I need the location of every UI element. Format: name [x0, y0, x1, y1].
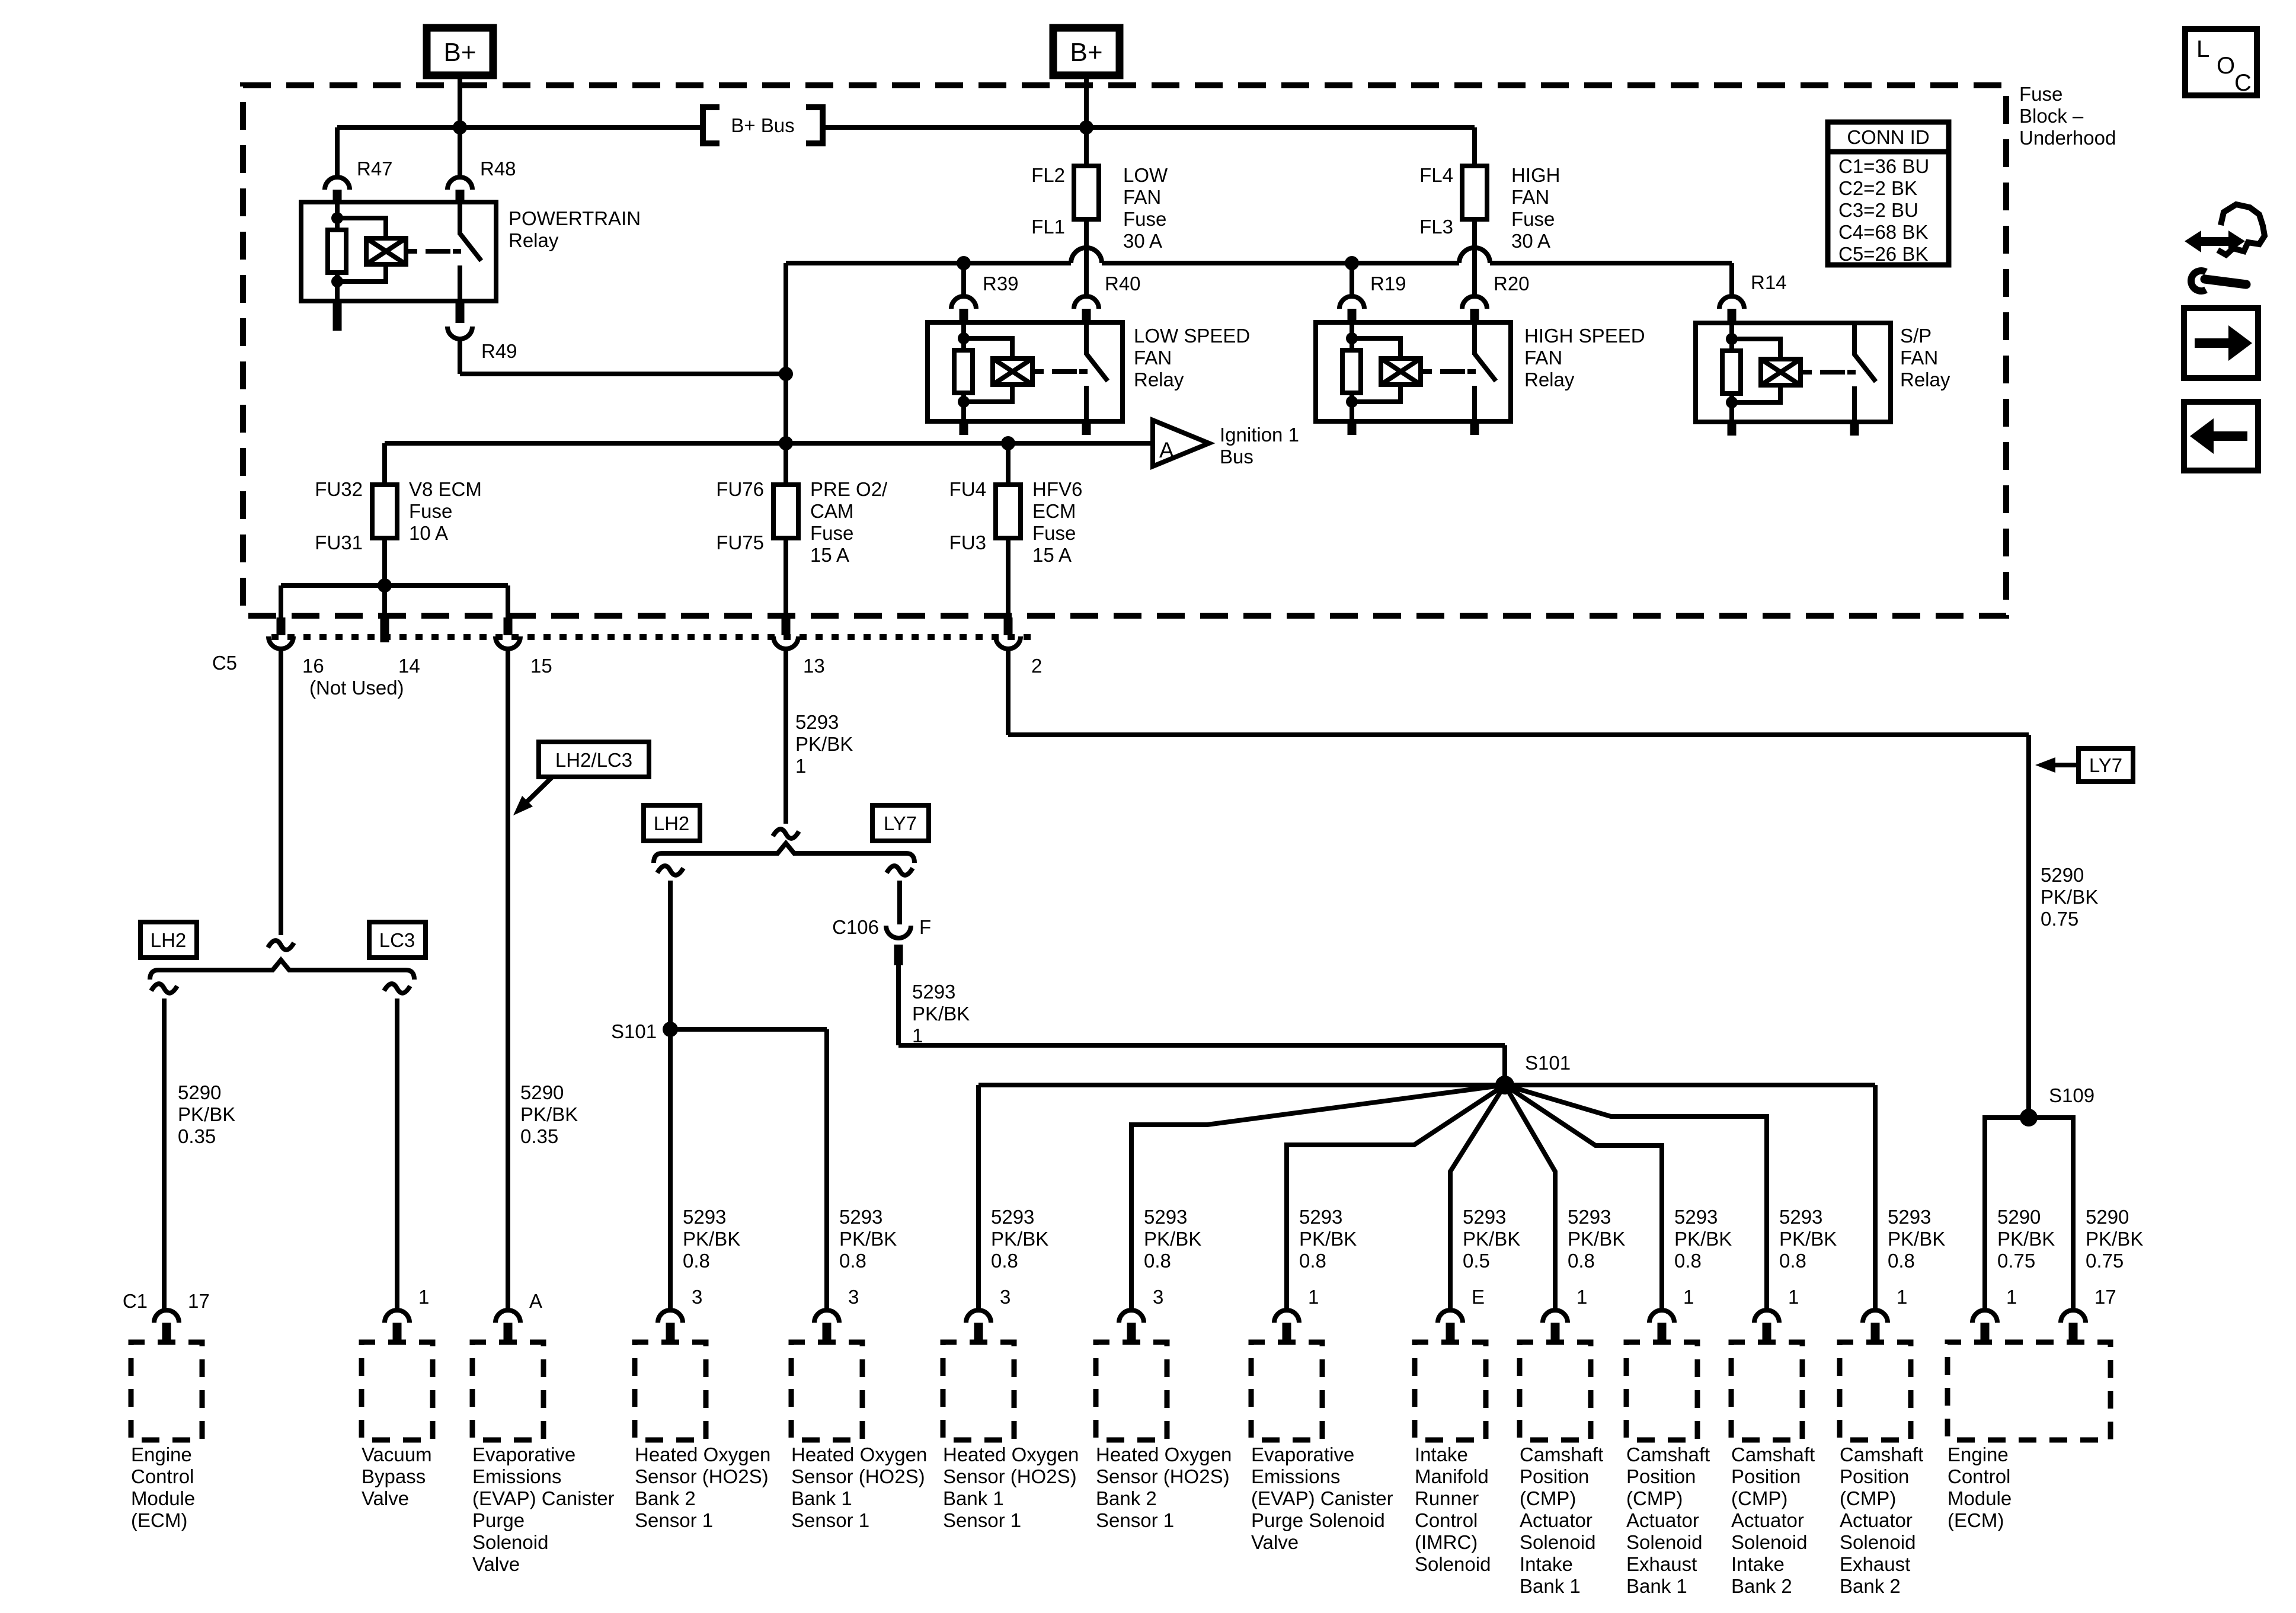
svg-text:15: 15 [530, 655, 552, 677]
svg-text:Intake: Intake [1520, 1553, 1573, 1575]
svg-text:Bypass: Bypass [362, 1465, 426, 1487]
svg-text:5293: 5293 [1568, 1206, 1611, 1228]
svg-text:Bank 1: Bank 1 [1520, 1575, 1581, 1597]
svg-text:1: 1 [1788, 1286, 1799, 1308]
svg-text:1: 1 [1576, 1286, 1587, 1308]
svg-text:PK/BK: PK/BK [2086, 1228, 2143, 1250]
svg-text:Relay: Relay [1524, 369, 1575, 391]
svg-text:PK/BK: PK/BK [1299, 1228, 1357, 1250]
svg-text:Bus: Bus [1220, 446, 1253, 468]
svg-text:HIGH SPEED: HIGH SPEED [1524, 325, 1645, 347]
svg-text:5290: 5290 [2086, 1206, 2129, 1228]
svg-text:C5: C5 [212, 652, 237, 674]
svg-text:1: 1 [1308, 1286, 1319, 1308]
svg-text:LC3: LC3 [379, 929, 415, 951]
svg-text:Camshaft: Camshaft [1731, 1444, 1815, 1465]
svg-text:5293: 5293 [1888, 1206, 1931, 1228]
svg-text:Position: Position [1840, 1465, 1909, 1487]
svg-text:5293: 5293 [1463, 1206, 1506, 1228]
svg-text:PK/BK: PK/BK [1997, 1228, 2055, 1250]
svg-text:S109: S109 [2049, 1084, 2094, 1106]
svg-text:PK/BK: PK/BK [2041, 886, 2098, 908]
svg-text:5293: 5293 [1779, 1206, 1822, 1228]
svg-text:POWERTRAIN: POWERTRAIN [509, 207, 641, 229]
svg-text:(ECM): (ECM) [1948, 1509, 2004, 1531]
svg-text:10 A: 10 A [409, 522, 448, 544]
svg-text:HIGH: HIGH [1511, 164, 1560, 186]
svg-text:Valve: Valve [472, 1553, 520, 1575]
svg-text:0.35: 0.35 [178, 1125, 216, 1147]
svg-text:FU4: FU4 [949, 478, 986, 500]
svg-text:PK/BK: PK/BK [1888, 1228, 1945, 1250]
svg-text:Sensor 1: Sensor 1 [791, 1509, 869, 1531]
svg-text:S/P: S/P [1900, 325, 1932, 347]
svg-text:Solenoid: Solenoid [1626, 1531, 1702, 1553]
svg-text:Sensor (HO2S): Sensor (HO2S) [1096, 1465, 1230, 1487]
svg-text:B+: B+ [443, 38, 476, 67]
svg-text:5290: 5290 [1997, 1206, 2041, 1228]
svg-text:5293: 5293 [912, 981, 955, 1003]
svg-text:Sensor (HO2S): Sensor (HO2S) [943, 1465, 1077, 1487]
svg-text:L: L [2196, 36, 2209, 62]
svg-text:Sensor (HO2S): Sensor (HO2S) [635, 1465, 769, 1487]
svg-text:Heated Oxygen: Heated Oxygen [1096, 1444, 1232, 1465]
svg-text:Relay: Relay [1134, 369, 1184, 391]
svg-text:Camshaft: Camshaft [1840, 1444, 1923, 1465]
svg-text:Module: Module [1948, 1487, 2012, 1509]
svg-text:Control: Control [1415, 1509, 1478, 1531]
svg-text:5293: 5293 [683, 1206, 726, 1228]
svg-text:Position: Position [1626, 1465, 1696, 1487]
svg-text:PK/BK: PK/BK [1779, 1228, 1837, 1250]
svg-text:PK/BK: PK/BK [795, 733, 853, 755]
svg-text:CONN ID: CONN ID [1847, 126, 1929, 148]
svg-text:Fuse: Fuse [1032, 522, 1076, 544]
svg-text:Bank 2: Bank 2 [1096, 1487, 1157, 1509]
svg-text:FL2: FL2 [1031, 164, 1065, 186]
svg-text:Camshaft: Camshaft [1520, 1444, 1603, 1465]
svg-text:0.8: 0.8 [1144, 1250, 1171, 1272]
svg-text:30 A: 30 A [1123, 230, 1162, 252]
svg-text:Actuator: Actuator [1626, 1509, 1699, 1531]
svg-text:PK/BK: PK/BK [1463, 1228, 1520, 1250]
svg-text:Control: Control [1948, 1465, 2010, 1487]
svg-text:PK/BK: PK/BK [683, 1228, 740, 1250]
svg-text:Underhood: Underhood [2019, 127, 2116, 149]
svg-text:Solenoid: Solenoid [472, 1531, 548, 1553]
svg-text:PK/BK: PK/BK [1144, 1228, 1201, 1250]
svg-text:Purge: Purge [472, 1509, 525, 1531]
svg-text:F: F [919, 916, 931, 938]
svg-text:5290: 5290 [178, 1081, 221, 1103]
svg-text:(EVAP) Canister: (EVAP) Canister [1251, 1487, 1393, 1509]
svg-text:0.8: 0.8 [839, 1250, 866, 1272]
svg-text:C5=26 BK: C5=26 BK [1838, 243, 1928, 265]
svg-text:Sensor 1: Sensor 1 [943, 1509, 1021, 1531]
svg-text:Block –: Block – [2019, 105, 2084, 127]
svg-text:Module: Module [131, 1487, 195, 1509]
svg-text:Sensor 1: Sensor 1 [1096, 1509, 1174, 1531]
svg-text:S101: S101 [611, 1020, 657, 1042]
svg-text:(ECM): (ECM) [131, 1509, 187, 1531]
svg-text:Fuse: Fuse [810, 522, 853, 544]
svg-text:Exhaust: Exhaust [1840, 1553, 1910, 1575]
svg-text:Sensor (HO2S): Sensor (HO2S) [791, 1465, 925, 1487]
svg-text:B+: B+ [1070, 38, 1102, 67]
svg-text:Evaporative: Evaporative [1251, 1444, 1354, 1465]
svg-text:C4=68 BK: C4=68 BK [1838, 221, 1928, 243]
svg-text:5293: 5293 [991, 1206, 1034, 1228]
svg-text:LH2: LH2 [151, 929, 187, 951]
svg-text:17: 17 [2094, 1286, 2116, 1308]
svg-text:FU76: FU76 [716, 478, 764, 500]
svg-text:2: 2 [1031, 655, 1042, 677]
svg-text:5293: 5293 [1144, 1206, 1187, 1228]
svg-text:Engine: Engine [1948, 1444, 2009, 1465]
svg-text:1: 1 [418, 1286, 429, 1308]
svg-text:Exhaust: Exhaust [1626, 1553, 1697, 1575]
svg-text:A: A [1159, 438, 1174, 462]
svg-text:0.8: 0.8 [1779, 1250, 1806, 1272]
svg-text:0.35: 0.35 [520, 1125, 558, 1147]
svg-text:Actuator: Actuator [1520, 1509, 1593, 1531]
svg-text:FAN: FAN [1123, 186, 1161, 208]
svg-text:HFV6: HFV6 [1032, 478, 1082, 500]
svg-text:5293: 5293 [839, 1206, 882, 1228]
svg-text:R20: R20 [1494, 273, 1530, 295]
svg-text:1: 1 [1683, 1286, 1694, 1308]
svg-text:ECM: ECM [1032, 500, 1076, 522]
svg-text:(IMRC): (IMRC) [1415, 1531, 1478, 1553]
svg-text:0.5: 0.5 [1463, 1250, 1490, 1272]
svg-text:Bank 1: Bank 1 [791, 1487, 852, 1509]
svg-text:17: 17 [188, 1290, 210, 1312]
svg-text:R40: R40 [1105, 273, 1141, 295]
svg-text:LH2: LH2 [654, 812, 690, 834]
svg-text:(Not Used): (Not Used) [309, 677, 404, 699]
svg-text:PK/BK: PK/BK [991, 1228, 1048, 1250]
svg-text:Heated Oxygen: Heated Oxygen [635, 1444, 770, 1465]
svg-text:14: 14 [398, 655, 420, 677]
svg-text:S101: S101 [1525, 1052, 1571, 1074]
svg-text:Engine: Engine [131, 1444, 192, 1465]
svg-text:0.8: 0.8 [991, 1250, 1018, 1272]
svg-text:FL3: FL3 [1419, 216, 1453, 238]
svg-text:Bank 2: Bank 2 [635, 1487, 696, 1509]
svg-text:1: 1 [2006, 1286, 2017, 1308]
svg-text:(CMP): (CMP) [1520, 1487, 1576, 1509]
svg-text:Heated Oxygen: Heated Oxygen [943, 1444, 1079, 1465]
svg-text:13: 13 [803, 655, 825, 677]
svg-text:Position: Position [1731, 1465, 1801, 1487]
svg-text:C2=2 BK: C2=2 BK [1838, 177, 1917, 199]
svg-text:1: 1 [1897, 1286, 1907, 1308]
svg-text:LOW: LOW [1123, 164, 1168, 186]
svg-text:1: 1 [795, 755, 806, 777]
svg-text:E: E [1472, 1286, 1485, 1308]
svg-text:C3=2 BU: C3=2 BU [1838, 199, 1918, 221]
svg-text:Relay: Relay [1900, 369, 1950, 391]
svg-text:O: O [2217, 53, 2235, 79]
svg-text:3: 3 [1153, 1286, 1163, 1308]
svg-text:FAN: FAN [1524, 347, 1562, 369]
svg-text:Bank 2: Bank 2 [1731, 1575, 1792, 1597]
svg-text:Fuse: Fuse [1123, 208, 1166, 230]
svg-text:3: 3 [1000, 1286, 1011, 1308]
svg-text:FL1: FL1 [1031, 216, 1065, 238]
svg-text:Intake: Intake [1415, 1444, 1468, 1465]
svg-text:Vacuum: Vacuum [362, 1444, 432, 1465]
svg-text:C1: C1 [123, 1290, 148, 1312]
svg-text:C106: C106 [832, 916, 879, 938]
svg-text:0.8: 0.8 [1299, 1250, 1326, 1272]
svg-text:CAM: CAM [810, 500, 853, 522]
svg-text:5290: 5290 [2041, 864, 2084, 886]
svg-text:Fuse: Fuse [2019, 83, 2062, 105]
svg-text:Camshaft: Camshaft [1626, 1444, 1710, 1465]
svg-text:FAN: FAN [1134, 347, 1172, 369]
svg-text:R14: R14 [1751, 271, 1787, 293]
svg-text:Manifold: Manifold [1415, 1465, 1489, 1487]
svg-text:C1=36 BU: C1=36 BU [1838, 155, 1929, 177]
svg-text:R39: R39 [983, 273, 1019, 295]
svg-text:3: 3 [848, 1286, 859, 1308]
svg-text:PK/BK: PK/BK [520, 1103, 578, 1125]
svg-text:0.75: 0.75 [1997, 1250, 2035, 1272]
svg-text:FU3: FU3 [949, 532, 986, 553]
svg-text:(CMP): (CMP) [1840, 1487, 1896, 1509]
svg-text:LOW SPEED: LOW SPEED [1134, 325, 1250, 347]
svg-text:Valve: Valve [1251, 1531, 1299, 1553]
svg-text:Sensor 1: Sensor 1 [635, 1509, 713, 1531]
svg-text:15 A: 15 A [1032, 544, 1072, 566]
svg-text:(EVAP) Canister: (EVAP) Canister [472, 1487, 615, 1509]
svg-text:Position: Position [1520, 1465, 1589, 1487]
svg-text:Intake: Intake [1731, 1553, 1785, 1575]
svg-text:LY7: LY7 [2089, 754, 2122, 776]
svg-text:A: A [529, 1290, 542, 1312]
svg-text:0.8: 0.8 [1568, 1250, 1595, 1272]
svg-text:PK/BK: PK/BK [178, 1103, 235, 1125]
svg-text:Fuse: Fuse [409, 500, 452, 522]
svg-text:Relay: Relay [509, 229, 559, 251]
svg-text:5293: 5293 [795, 711, 839, 733]
svg-text:PK/BK: PK/BK [1568, 1228, 1625, 1250]
svg-text:Bank 1: Bank 1 [1626, 1575, 1687, 1597]
svg-text:Fuse: Fuse [1511, 208, 1555, 230]
svg-text:Solenoid: Solenoid [1731, 1531, 1807, 1553]
svg-text:Bank 1: Bank 1 [943, 1487, 1004, 1509]
svg-text:Solenoid: Solenoid [1415, 1553, 1491, 1575]
svg-text:(CMP): (CMP) [1731, 1487, 1787, 1509]
svg-text:V8 ECM: V8 ECM [409, 478, 482, 500]
svg-text:0.75: 0.75 [2041, 908, 2078, 930]
svg-text:R48: R48 [480, 158, 516, 180]
svg-text:FAN: FAN [1511, 186, 1549, 208]
svg-text:Evaporative: Evaporative [472, 1444, 575, 1465]
svg-text:0.8: 0.8 [683, 1250, 710, 1272]
svg-text:R49: R49 [481, 340, 517, 362]
svg-text:3: 3 [692, 1286, 702, 1308]
svg-text:Solenoid: Solenoid [1520, 1531, 1595, 1553]
svg-text:(CMP): (CMP) [1626, 1487, 1683, 1509]
svg-text:FAN: FAN [1900, 347, 1938, 369]
svg-text:Emissions: Emissions [1251, 1465, 1340, 1487]
svg-text:C: C [2234, 70, 2252, 96]
svg-text:R47: R47 [357, 158, 393, 180]
svg-text:Valve: Valve [362, 1487, 409, 1509]
svg-text:Bank 2: Bank 2 [1840, 1575, 1901, 1597]
svg-text:PK/BK: PK/BK [912, 1003, 970, 1025]
svg-text:B+ Bus: B+ Bus [731, 114, 794, 136]
svg-text:PK/BK: PK/BK [839, 1228, 897, 1250]
svg-text:5293: 5293 [1674, 1206, 1718, 1228]
svg-text:FL4: FL4 [1419, 164, 1453, 186]
svg-text:Actuator: Actuator [1731, 1509, 1804, 1531]
svg-text:LH2/LC3: LH2/LC3 [555, 749, 632, 771]
svg-text:PK/BK: PK/BK [1674, 1228, 1732, 1250]
svg-text:15 A: 15 A [810, 544, 849, 566]
svg-text:Ignition 1: Ignition 1 [1220, 424, 1299, 446]
svg-text:0.8: 0.8 [1888, 1250, 1915, 1272]
svg-text:LY7: LY7 [884, 812, 917, 834]
svg-text:30 A: 30 A [1511, 230, 1550, 252]
svg-text:R19: R19 [1370, 273, 1406, 295]
svg-text:0.75: 0.75 [2086, 1250, 2124, 1272]
svg-text:Purge Solenoid: Purge Solenoid [1251, 1509, 1385, 1531]
svg-text:Emissions: Emissions [472, 1465, 561, 1487]
svg-text:Heated Oxygen: Heated Oxygen [791, 1444, 927, 1465]
svg-text:Actuator: Actuator [1840, 1509, 1913, 1531]
svg-text:Control: Control [131, 1465, 194, 1487]
svg-text:Solenoid: Solenoid [1840, 1531, 1916, 1553]
svg-text:FU32: FU32 [315, 478, 363, 500]
svg-text:16: 16 [302, 655, 324, 677]
svg-text:5290: 5290 [520, 1081, 564, 1103]
svg-text:FU75: FU75 [716, 532, 764, 553]
svg-text:0.8: 0.8 [1674, 1250, 1702, 1272]
svg-text:PRE O2/: PRE O2/ [810, 478, 888, 500]
svg-text:Runner: Runner [1415, 1487, 1479, 1509]
svg-text:5293: 5293 [1299, 1206, 1342, 1228]
svg-text:FU31: FU31 [315, 532, 363, 553]
